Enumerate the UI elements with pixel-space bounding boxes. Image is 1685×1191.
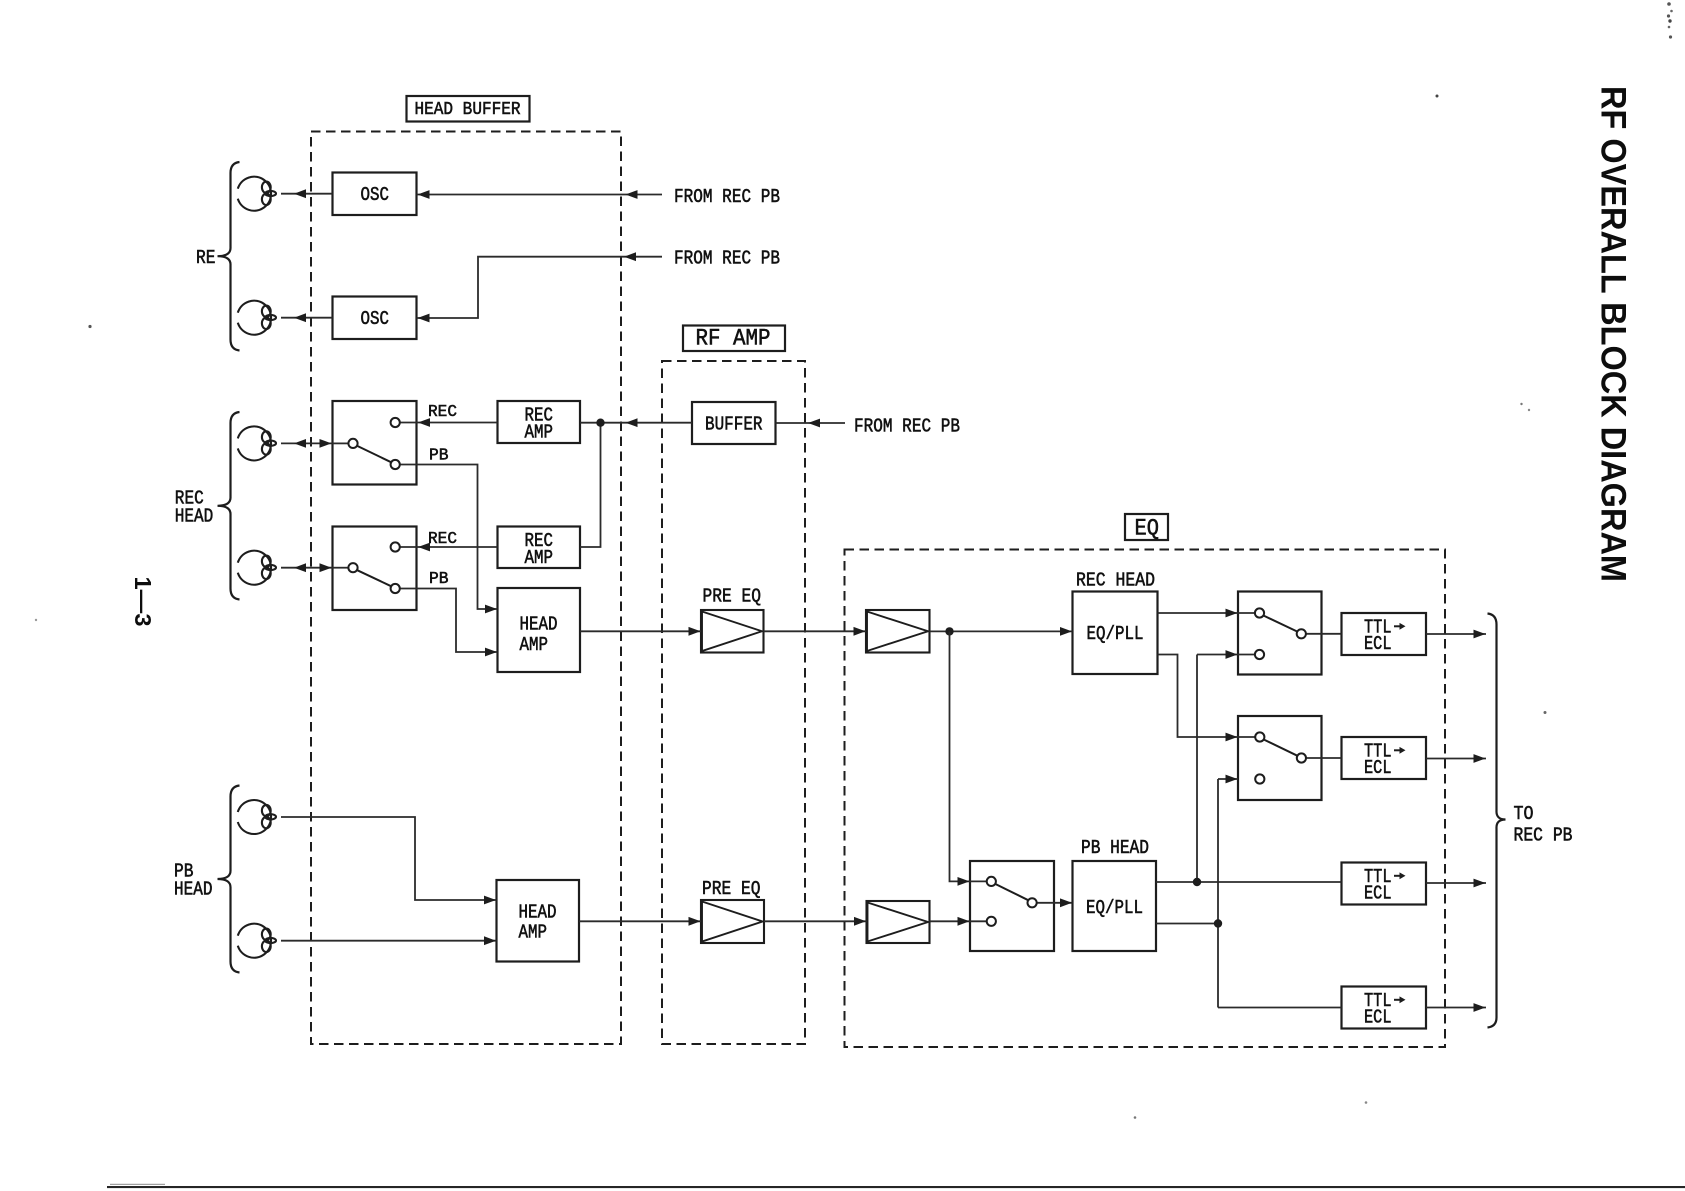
switch contact SW2 REC	[391, 542, 400, 551]
svg-text:PRE EQ: PRE EQ	[702, 878, 761, 900]
switch contact SW1 PB	[391, 460, 400, 469]
svg-text:ECL: ECL	[1364, 1007, 1392, 1029]
svg-text:BUFFER: BUFFER	[705, 414, 763, 436]
block switch SW1 box	[333, 401, 417, 485]
block switch SW2 box	[333, 527, 417, 611]
svg-text:ECL: ECL	[1364, 883, 1392, 905]
arrowhead (right) TTL-ECL 2 output arrow	[1474, 754, 1486, 763]
block label box HEAD BUFFER	[407, 96, 530, 122]
wire EQ/PLL 1 output A to SW3	[1158, 612, 1239, 614]
wire net to SW4 lower contact	[1218, 778, 1238, 780]
switch contact SW3 output	[1297, 629, 1306, 638]
scan specks (noise)	[88, 325, 91, 328]
switch contact SW4 lower	[1255, 774, 1264, 783]
svg-text:EQ: EQ	[1135, 516, 1160, 542]
arrowhead (right) into SW5 upper contact	[958, 877, 970, 886]
brace REC HEAD group	[218, 412, 240, 600]
svg-text:REC: REC	[428, 403, 457, 422]
arrowhead (right) into SW3 lower contact	[1226, 650, 1238, 659]
wire net PB-EQ up to SW3 lower contact	[1197, 654, 1238, 656]
wire EQ amp 1 to EQ/PLL 1	[930, 630, 1073, 632]
brace RE group	[218, 162, 240, 351]
svg-text:OSC: OSC	[361, 184, 390, 206]
amplifier block PRE EQ 1	[701, 610, 764, 653]
wire TTL-ECL 1 output	[1426, 633, 1486, 635]
block HEAD AMP 1	[498, 588, 581, 672]
junction dot J1 (REC AMP feed split)	[596, 419, 604, 427]
label TTL-ECL converter 2 arrow glyph	[1394, 749, 1402, 751]
wire SW2 PB contact to HEAD AMP 1 input B	[400, 589, 498, 653]
arrowhead (right) into EQ/PLL 2	[1060, 898, 1072, 907]
svg-text:HEAD: HEAD	[519, 902, 557, 924]
svg-text:AMP: AMP	[525, 422, 554, 444]
switch contact SW4 upper	[1255, 732, 1264, 741]
block OSC 1 (upper)	[333, 173, 417, 216]
wire SW3 lower contact stub	[1238, 654, 1255, 656]
brace PB HEAD group	[218, 786, 240, 973]
wire REC head 1 to SW1 common	[281, 442, 333, 444]
arrowhead (left) toward REC head 2	[294, 563, 306, 572]
switch contact SW3 lower	[1255, 650, 1264, 659]
switch lever SW1 (thrown to PB)	[357, 446, 391, 462]
arrowhead (left) into SW1 REC contact	[418, 418, 430, 427]
wire SW2 common stub	[333, 567, 349, 569]
arrowhead (left) at HEAD BUFFER boundary (REC AMP 1 input)	[626, 418, 638, 427]
arrowhead (left) at HEAD BUFFER boundary (OSC 1 input)	[626, 190, 638, 199]
arrowhead (right) into HEAD AMP 1 input B	[485, 648, 497, 657]
amplifier block EQ amp 1	[866, 610, 930, 653]
wire HEAD AMP 1 output to PRE EQ 1	[580, 630, 701, 632]
switch lever SW5 (thrown to upper)	[995, 884, 1028, 900]
svg-text:HEAD BUFFER: HEAD BUFFER	[415, 100, 521, 120]
svg-text:1—3: 1—3	[130, 577, 156, 627]
tape head symbol REC head 2	[238, 551, 276, 585]
junction dot J4 (lower split)	[1214, 919, 1222, 927]
wire EQ/PLL 2 output A to TTL-ECL 3	[1156, 881, 1342, 883]
wire TTL-ECL 4 output	[1426, 1007, 1486, 1009]
arrowhead (left) into SW2 REC contact	[418, 543, 430, 552]
svg-text:RF OVERALL BLOCK DIAGRAM: RF OVERALL BLOCK DIAGRAM	[1594, 86, 1633, 582]
wire PB head 2 to HEAD AMP 2 input B	[281, 940, 497, 942]
block label box RF AMP	[683, 326, 785, 352]
wire PRE EQ 2 to EQ amp 2	[764, 920, 867, 922]
wire SW1 PB contact to HEAD AMP 1 input A	[400, 465, 498, 610]
arrowhead (right) into PRE EQ 2	[689, 917, 701, 926]
wire SW5 output to EQ/PLL 2	[1037, 902, 1073, 904]
block BUFFER	[692, 402, 776, 444]
block TTL-ECL converter 3	[1342, 863, 1427, 905]
switch contact SW5 lower	[987, 917, 996, 926]
svg-text:EQ/PLL: EQ/PLL	[1086, 897, 1143, 919]
arrowhead (right) into SW5 lower contact	[958, 917, 970, 926]
svg-text:HEAD: HEAD	[175, 506, 214, 528]
arrowhead (right) TTL-ECL 4 output arrow	[1474, 1003, 1486, 1012]
svg-text:REC HEAD: REC HEAD	[1076, 570, 1155, 592]
block EQ/PLL 2 (PB HEAD)	[1073, 861, 1157, 951]
wire REC AMP 2 output to SW2 REC contact	[400, 546, 498, 548]
switch contact SW4 output	[1297, 753, 1306, 762]
arrowhead (left) into RE head 2	[294, 313, 306, 322]
svg-text:FROM REC PB: FROM REC PB	[854, 416, 960, 438]
junction dot J3 (PB EQ output split)	[1193, 878, 1201, 886]
wire REC AMP 1 output to SW1 REC contact	[400, 422, 498, 424]
svg-text:PB: PB	[429, 447, 449, 466]
arrowhead (right) into SW4 lower contact	[1226, 775, 1238, 784]
arrowhead (right) into HEAD AMP 2 input A	[484, 896, 496, 905]
arrowhead (right) TTL-ECL 1 output arrow	[1474, 630, 1486, 639]
wire FROM REC PB 2 into OSC 2	[417, 257, 663, 318]
block HEAD AMP 2	[497, 880, 580, 962]
wire vertical net junction J4 to SW4	[1217, 779, 1219, 1008]
arrowhead (right) into HEAD AMP 2 input B	[484, 936, 496, 945]
wire REC head 2 to SW2 common	[281, 567, 333, 569]
wire net J4 to TTL-ECL 4	[1218, 1007, 1342, 1009]
svg-text:HEAD: HEAD	[520, 614, 558, 636]
wire HEAD AMP 2 output to PRE EQ 2	[579, 920, 701, 922]
arrowhead (left) into BUFFER at RF AMP boundary	[808, 419, 820, 428]
tape head symbol RE head 2	[238, 301, 276, 335]
wire PB head 1 to HEAD AMP 2 input A	[281, 817, 497, 900]
svg-text:REC: REC	[428, 530, 457, 549]
arrowhead (left) into OSC 2	[418, 314, 430, 323]
wire SW4 upper contact stub	[1238, 736, 1255, 738]
wire OSC 1 output to RE head 1	[281, 193, 333, 195]
junction dot J2 (EQ input split)	[945, 627, 953, 635]
wire SW4 output to TTL-ECL 2	[1306, 757, 1342, 759]
svg-text:ECL: ECL	[1364, 633, 1392, 655]
wire FROM REC PB 1 into OSC 1	[417, 194, 663, 196]
switch contact SW3 upper	[1255, 608, 1264, 617]
arrowhead (right) into PRE EQ 1	[689, 627, 701, 636]
wire junction J2 down to SW5 upper input	[950, 631, 971, 881]
arrowhead (right) into SW3 upper contact	[1226, 609, 1238, 618]
amplifier block PRE EQ 2	[701, 900, 764, 943]
svg-text:HEAD: HEAD	[174, 879, 213, 901]
svg-text:RF AMP: RF AMP	[696, 325, 771, 351]
svg-text:ECL: ECL	[1364, 757, 1392, 779]
wire FROM REC PB 3 into BUFFER	[776, 422, 846, 424]
tape head symbol PB head 2	[238, 924, 276, 958]
svg-text:EQ/PLL: EQ/PLL	[1087, 623, 1144, 645]
tape head symbol PB head 1	[238, 800, 276, 834]
block label box EQ	[1125, 514, 1168, 540]
switch contact SW5 output	[1028, 898, 1037, 907]
svg-text:RE: RE	[196, 247, 216, 269]
amplifier block EQ amp 2	[867, 901, 930, 943]
block REC AMP 1	[498, 401, 581, 443]
arrowhead (right) into EQ amp 2	[854, 917, 866, 926]
switch contact SW5 upper	[987, 877, 996, 886]
brace TO REC PB group	[1488, 614, 1506, 1028]
svg-text:PRE EQ: PRE EQ	[703, 586, 762, 608]
tape head symbol RE head 1	[238, 177, 276, 211]
dashed module boundary RF AMP	[662, 361, 805, 1044]
block switch SW4 box	[1238, 716, 1322, 800]
arrowhead (right) into SW4 upper contact	[1226, 733, 1238, 742]
dashed module boundary HEAD BUFFER	[311, 132, 621, 1045]
svg-text:FROM REC PB: FROM REC PB	[674, 186, 780, 208]
page bottom scan edge line	[107, 1186, 1685, 1188]
wire vertical net from junction J3 to SW3	[1196, 655, 1198, 883]
switch contact SW1 REC	[391, 418, 400, 427]
wire SW3 upper contact stub	[1238, 612, 1255, 614]
switch contact SW2 common	[348, 563, 357, 572]
arrowhead (right) into HEAD AMP 1 input A	[485, 605, 497, 614]
block switch SW5 box	[970, 861, 1054, 951]
arrowhead (left) into OSC 1	[418, 190, 430, 199]
wire SW1 common stub	[333, 442, 349, 444]
switch contact SW2 PB	[391, 584, 400, 593]
arrowhead (left) into RE head 1	[294, 189, 306, 198]
block REC AMP 2	[498, 527, 581, 569]
wire EQ amp 2 to SW5 lower input	[930, 920, 971, 922]
switch contact SW1 common	[348, 439, 357, 448]
svg-text:PB HEAD: PB HEAD	[1081, 837, 1149, 859]
wire BUFFER output to REC AMP 1	[580, 422, 692, 424]
wire REC AMP 2 input branch from junction J1	[580, 423, 601, 547]
switch lever SW3 (thrown to upper)	[1263, 616, 1297, 632]
wire TTL-ECL 2 output	[1426, 758, 1486, 760]
dashed module boundary EQ	[845, 550, 1446, 1048]
arrowhead (right) into EQ amp 1	[854, 627, 866, 636]
block switch SW3 box	[1238, 592, 1322, 675]
svg-text:OSC: OSC	[361, 308, 390, 330]
switch lever SW4 (thrown to upper)	[1264, 740, 1298, 756]
wire EQ/PLL 1 output B to SW4	[1158, 655, 1239, 738]
label TTL-ECL converter 4 arrow glyph	[1394, 999, 1402, 1001]
block TTL-ECL converter 4	[1342, 987, 1427, 1029]
wire TTL-ECL 3 output	[1426, 882, 1486, 884]
block EQ/PLL 1 (REC HEAD)	[1073, 592, 1158, 675]
switch lever SW2 (thrown to PB)	[357, 570, 391, 586]
block OSC 2 (lower)	[333, 297, 417, 340]
wire SW5 lower contact stub	[970, 920, 987, 922]
svg-text:REC PB: REC PB	[1514, 825, 1573, 847]
svg-text:TO: TO	[1514, 803, 1534, 825]
svg-text:AMP: AMP	[520, 634, 549, 656]
wire OSC 2 output to RE head 2	[281, 317, 333, 319]
arrowhead (left) toward REC head 1	[294, 439, 306, 448]
label TTL-ECL converter 1 arrow glyph	[1394, 625, 1402, 627]
arrowhead (right) into EQ/PLL 1	[1060, 627, 1072, 636]
svg-text:PB: PB	[429, 570, 449, 589]
tape head symbol REC head 1	[238, 426, 276, 460]
label TTL-ECL converter 3 arrow glyph	[1394, 875, 1402, 877]
arrowhead (right) into SW2	[320, 563, 332, 572]
svg-text:AMP: AMP	[519, 922, 548, 944]
block TTL-ECL converter 1	[1342, 613, 1427, 655]
wire SW5 upper contact stub	[970, 880, 987, 882]
arrowhead (right) into SW1	[320, 439, 332, 448]
svg-text:AMP: AMP	[525, 547, 554, 569]
wire SW3 output to TTL-ECL 1	[1306, 633, 1342, 635]
wire EQ/PLL 2 output B to junction J4	[1156, 923, 1218, 925]
block TTL-ECL converter 2	[1342, 737, 1427, 779]
svg-text:FROM REC PB: FROM REC PB	[674, 248, 780, 270]
arrowhead (right) TTL-ECL 3 output arrow	[1474, 879, 1486, 888]
wire PRE EQ 1 to EQ amp 1	[764, 630, 867, 632]
arrowhead (left) at HEAD BUFFER boundary (OSC 2 input)	[624, 252, 636, 261]
